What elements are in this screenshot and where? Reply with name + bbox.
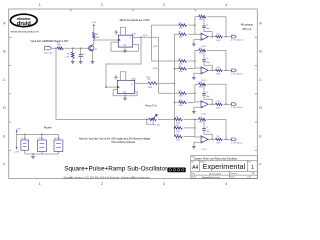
wire emitter to ground [91, 51, 93, 62]
svg-text:4013 raw outputs are 0-15V: 4013 raw outputs are 0-15V [120, 19, 150, 22]
svg-text:100p: 100p [206, 62, 210, 64]
wire feedback return [207, 50, 226, 70]
ground [192, 44, 196, 46]
svg-text:Drawn by:: Drawn by: [230, 173, 238, 175]
svg-text:1: 1 [39, 3, 41, 7]
svg-text:2: 2 [101, 182, 103, 186]
ground [192, 147, 196, 149]
svg-text:100R: 100R [216, 108, 221, 110]
svg-text:R9: R9 [179, 91, 181, 93]
svg-text:1 of 1: 1 of 1 [247, 177, 251, 179]
set loop above U1A [120, 27, 125, 35]
junction ramp node [194, 119, 196, 121]
wire output [208, 103, 215, 105]
svg-text:www.electricdruid.net: www.electricdruid.net [11, 30, 40, 34]
wire noninverting to ground [194, 107, 201, 111]
svg-text:RampSubOsc.sch: RampSubOsc.sch [202, 177, 220, 179]
wire feedback return [207, 119, 226, 139]
pin D [111, 41, 118, 43]
svg-text:R12: R12 [176, 125, 179, 127]
title block [191, 156, 257, 179]
feedback wire U1B [113, 90, 137, 96]
wire noninverting to ground [194, 73, 201, 77]
flip-flop U1A 4013 [118, 35, 132, 47]
svg-text:C6 47u: C6 47u [21, 138, 27, 140]
svg-text:RV1 10K: RV1 10K [153, 125, 161, 127]
svg-text:100R: 100R [216, 74, 221, 76]
resistor R6 mixing [174, 33, 178, 35]
svg-text:electric: electric [17, 16, 31, 21]
ground flag above U1A [115, 33, 117, 36]
ground flag above U1B [115, 78, 117, 81]
svg-text:C: C [259, 78, 262, 82]
svg-text:C5: C5 [206, 127, 208, 129]
junction trimmer wiper node [146, 119, 148, 121]
output port -1 Oct Pulse [231, 103, 236, 106]
wire trimmer to rowD resistor [158, 118, 175, 120]
resistor R11 mixing rowD [174, 118, 182, 121]
svg-text:Q1: Q1 [95, 49, 98, 51]
svg-text:E: E [259, 134, 262, 138]
svg-text:B: B [3, 50, 6, 54]
svg-text:26 Oct 2017: 26 Oct 2017 [209, 172, 222, 175]
svg-text:A: A [3, 21, 6, 25]
svg-text:C3: C3 [206, 58, 208, 60]
frame labels [3, 3, 262, 186]
svg-text:R17: R17 [199, 82, 202, 84]
op-amp TL072 [201, 33, 208, 40]
svg-text:Shared under a CC BY-NC-SA 4.0: Shared under a CC BY-NC-SA 4.0 licence. … [63, 175, 150, 179]
svg-text:100p: 100p [206, 131, 210, 133]
junction dots on op-amp input nodes [194, 24, 196, 26]
svg-text:SQU1: SQU1 [153, 46, 158, 48]
capacitor C8 [54, 140, 63, 151]
svg-text:2: 2 [101, 3, 103, 7]
svg-text:R14: R14 [217, 34, 220, 36]
svg-text:R6: R6 [179, 32, 181, 34]
svg-text:Experimental: Experimental [203, 162, 246, 171]
ground [91, 62, 95, 64]
transistor Q1 [89, 46, 94, 51]
svg-text:Square+Pulse+Ramp Sub-Oscillat: Square+Pulse+Ramp Sub-Oscillator [64, 165, 168, 172]
resistor R5 mixing [152, 24, 179, 26]
CC badge [167, 168, 185, 173]
junction input to ramp branch [55, 48, 57, 50]
resistor R16 output [215, 69, 222, 71]
wire to -15V [16, 134, 18, 147]
wire inverting input node [195, 119, 201, 137]
svg-text:-1 Oct Ramp: -1 Oct Ramp [230, 141, 242, 144]
svg-text:1n: 1n [82, 57, 84, 59]
svg-text:Power: Power [44, 126, 52, 130]
svg-text:Input from CEM3340 Ramp 0-10V: Input from CEM3340 Ramp 0-10V [31, 40, 69, 43]
op-amp TL072 [201, 136, 208, 143]
wire inverting input node [195, 84, 201, 102]
junction dots on SQU2 bus [174, 68, 176, 70]
wiper loop [147, 119, 153, 124]
-15V power symbol [16, 147, 18, 149]
bus net SQU1a [151, 25, 153, 61]
svg-text:SQU2: SQU2 [146, 77, 151, 79]
svg-text:SQU2: SQU2 [153, 68, 158, 70]
svg-text:100K: 100K [57, 45, 62, 47]
svg-text:4013: 4013 [132, 79, 136, 81]
svg-text:R11: R11 [176, 117, 179, 119]
resistor R15 feedback [195, 49, 199, 51]
junction dots input node [72, 48, 74, 50]
wire input to trimmer [56, 48, 149, 119]
wire feedback return [207, 17, 226, 37]
svg-text:A: A [259, 21, 262, 25]
bus net SQU2 [173, 34, 175, 136]
svg-text:Saw Input: Saw Input [44, 52, 53, 55]
svg-text:R21: R21 [176, 134, 179, 136]
resistor R1 [57, 47, 64, 50]
capacitor C7 [37, 140, 46, 151]
svg-text:100R: 100R [216, 143, 221, 145]
svg-text:T.W.: T.W. [252, 173, 256, 175]
svg-text:TL072: TL072 [201, 46, 206, 48]
resistor R14 output [215, 36, 222, 38]
svg-text:R2: R2 [67, 54, 69, 56]
output port -2 Oct Square [231, 69, 236, 72]
svg-text:C7 100n: C7 100n [38, 138, 44, 140]
svg-text:R15: R15 [199, 48, 202, 50]
flip-flop U1B 4013 [117, 80, 134, 93]
resistor R12 mixing rowD [174, 127, 182, 130]
svg-text:Ramp Trim: Ramp Trim [145, 104, 157, 107]
junction Q1A node [140, 37, 142, 39]
ground below U1A [124, 47, 126, 50]
svg-text:-1 Oct Pulse: -1 Oct Pulse [230, 106, 242, 109]
trimmer RV1 Ramp Trim [149, 118, 157, 121]
svg-text:TL072: TL072 [201, 149, 206, 151]
wire output [208, 138, 215, 140]
feedback wire U1A [111, 42, 138, 51]
capacitor C1 to ground [80, 48, 82, 54]
op-amp TL072 [201, 67, 208, 74]
capacitor C5 feedback [203, 119, 205, 128]
svg-text:R13: R13 [199, 14, 202, 16]
bottom rail [25, 153, 59, 155]
resistor R18 output [215, 103, 222, 105]
+15V power rail symbol [16, 131, 18, 134]
resistor R4 [148, 82, 157, 85]
svg-text:-1 Oct Square: -1 Oct Square [230, 39, 244, 42]
svg-text:3: 3 [163, 3, 165, 7]
pin D [113, 89, 117, 91]
wire inverting input node [195, 17, 201, 35]
svg-text:R5: R5 [179, 23, 181, 25]
resistor R7 mixing [152, 60, 179, 62]
junction rowD node [194, 127, 196, 128]
svg-text:R3: R3 [96, 34, 98, 36]
resistor R17 feedback [195, 83, 199, 85]
ground [32, 154, 34, 156]
wire noninverting to ground [194, 40, 201, 44]
svg-text:All outputs: All outputs [241, 22, 254, 26]
svg-text:-15V: -15V [14, 152, 19, 154]
wire R4 to bus [159, 82, 175, 84]
wire feedback return [207, 84, 226, 104]
svg-text:TL072: TL072 [201, 114, 206, 116]
svg-text:R7: R7 [179, 58, 181, 60]
resistor R9 mixing [159, 92, 179, 94]
svg-text:C1: C1 [82, 54, 84, 56]
svg-text:R19: R19 [199, 117, 202, 119]
capacitor C2 feedback [203, 17, 205, 26]
svg-text:R8: R8 [179, 66, 181, 68]
svg-text:4013: 4013 [132, 33, 136, 35]
svg-text:4: 4 [225, 182, 227, 186]
svg-text:+15V: +15V [91, 22, 96, 24]
output port -1 Oct Square [231, 35, 236, 38]
ground [192, 112, 196, 114]
wire inverting input node [195, 50, 201, 68]
resistor R3 pull-up [93, 32, 96, 39]
wire output [208, 36, 215, 38]
wire [52, 47, 57, 49]
svg-text:This could be improved.: This could be improved. [111, 141, 136, 144]
junction U1B clock node [105, 86, 107, 88]
wire noninverting to ground [194, 142, 201, 146]
svg-text:100K: 100K [148, 87, 153, 89]
wire collector [92, 40, 93, 46]
svg-text:R20: R20 [217, 136, 220, 138]
svg-text:1: 1 [39, 182, 41, 186]
svg-text:±5V p-p: ±5V p-p [242, 27, 252, 31]
+15V power symbol [93, 26, 95, 32]
wire clock to U1A [94, 39, 119, 41]
svg-text:druid: druid [17, 21, 32, 27]
capacitor C3 feedback [203, 50, 205, 59]
svg-text:4: 4 [225, 3, 227, 7]
capacitor C6 [21, 140, 29, 150]
svg-text:R16: R16 [217, 67, 220, 69]
wire Q out [133, 36, 141, 38]
svg-text:B: B [259, 50, 262, 54]
junction dots power rail [24, 134, 26, 136]
resistor R13 feedback [195, 16, 199, 18]
op-amp TL072 [201, 101, 208, 108]
resistor R2 to ground [72, 48, 74, 52]
svg-text:C4: C4 [206, 92, 208, 94]
svg-text:E: E [3, 134, 6, 138]
svg-text:C8 100n: C8 100n [54, 138, 60, 140]
svg-text:R18: R18 [217, 101, 220, 103]
svg-text:A4: A4 [192, 165, 198, 171]
svg-text:R4: R4 [148, 79, 150, 81]
svg-text:D: D [259, 106, 262, 110]
svg-text:-2 Oct Square: -2 Oct Square [230, 72, 244, 75]
junction collector node [93, 39, 95, 41]
capacitor C4 feedback [203, 84, 205, 93]
resistor R20 output [215, 138, 222, 140]
svg-text:100p: 100p [206, 96, 210, 98]
wire Q to bus [141, 36, 159, 38]
output port -1 Oct Ramp [231, 138, 236, 141]
svg-text:3: 3 [163, 182, 165, 186]
resistor R19 feedback [195, 118, 199, 120]
svg-text:SQU1: SQU1 [143, 35, 148, 37]
wire [64, 47, 89, 49]
svg-text:Square, Pulse, and Ramp Sub-Os: Square, Pulse, and Ramp Sub-Oscillator [194, 158, 237, 161]
resistor R10 mixing [174, 101, 178, 103]
wire Q out to R4 [135, 82, 148, 84]
sheet border frame [9, 9, 258, 179]
wire output [208, 69, 215, 71]
svg-text:Rev: Rev [248, 161, 251, 163]
resistor R8 mixing [174, 68, 178, 70]
junction SQU2 to bus [174, 83, 176, 85]
svg-text:D: D [3, 106, 6, 110]
wire Q to U1B clock [106, 37, 141, 87]
resistor R21 mixing rowD [174, 135, 182, 138]
power rail [17, 133, 59, 135]
svg-text:Size: Size [191, 161, 194, 163]
svg-text:100p: 100p [206, 28, 210, 30]
ground below U1B [124, 93, 126, 98]
ground [192, 78, 196, 80]
bus net SQU1b [158, 37, 160, 93]
svg-text:100R: 100R [216, 40, 221, 42]
set loop above U1B [120, 72, 126, 81]
svg-text:1: 1 [251, 165, 254, 171]
svg-text:TL072: TL072 [201, 80, 206, 82]
svg-text:C2: C2 [206, 24, 208, 26]
electric druid logo [10, 14, 37, 27]
ground [79, 62, 83, 64]
ground [71, 62, 75, 64]
svg-text:R10: R10 [179, 100, 182, 102]
junction ground rail [32, 153, 34, 155]
input port Saw [45, 47, 52, 50]
svg-text:C: C [3, 78, 6, 82]
svg-text:Note the "pure lazy" use of th: Note the "pure lazy" use of the +15V sup… [79, 137, 151, 140]
